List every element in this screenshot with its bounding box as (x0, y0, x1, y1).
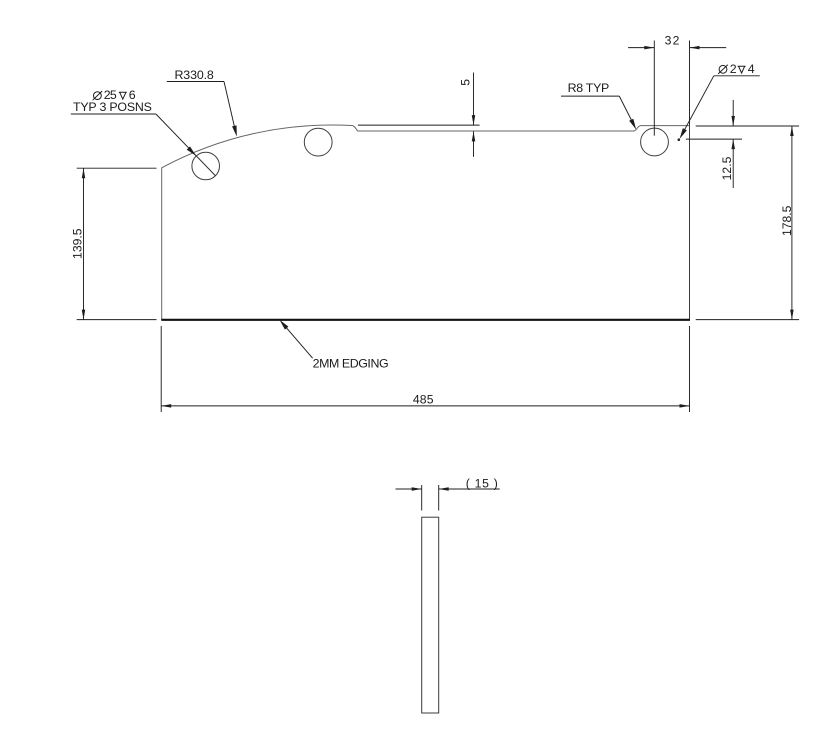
dimension (15): dimension lines (396, 488, 422, 490)
svg-text:178.5: 178.5 (780, 205, 794, 236)
svg-text:R8 TYP: R8 TYP (568, 81, 610, 95)
label dia 25 depth 6: diameter symbol (94, 92, 102, 100)
small hole (dia 2) (678, 138, 681, 141)
svg-text:32: 32 (665, 34, 680, 48)
dimension (15): arrowheads (412, 487, 422, 491)
label dia 2 depth 4: diameter symbol (719, 65, 727, 73)
part outline: main view profile (arc R330.8, recess, notch, edges) (162, 125, 690, 320)
svg-text:12.5: 12.5 (720, 156, 734, 180)
hole 2 (dia 25) (304, 128, 332, 156)
label 2MM EDGING: arrowhead (280, 320, 289, 330)
dimension 5: extension line (358, 124, 480, 126)
part bottom edge (2mm edging, thick) (161, 319, 690, 321)
dimension 5: arrowheads (472, 115, 476, 125)
label R8 TYP: arrowhead (629, 119, 636, 130)
label R8 TYP: underline and leader (561, 95, 619, 97)
svg-text:485: 485 (413, 393, 434, 407)
svg-text:( 15 ): ( 15 ) (466, 477, 498, 491)
dimension 32: dimension lines (628, 47, 654, 49)
label dia 2 depth 4: arrowhead (680, 128, 687, 139)
label TYP 3 POSNS: arrowhead (187, 146, 196, 156)
svg-text:139.5: 139.5 (70, 228, 84, 259)
dimension 178.5: extension lines (696, 125, 799, 127)
dimension 12.5: lower extension line (686, 138, 742, 140)
svg-text:2MM EDGING: 2MM EDGING (313, 356, 389, 370)
dimension 485: arrowheads (161, 404, 171, 408)
dimension 139.5: arrowheads (82, 168, 86, 178)
label R330.8: underline and leader (167, 81, 224, 83)
dimension 178.5: arrowheads (790, 126, 794, 136)
label dia 2 depth 4: depth symbol (738, 66, 746, 73)
dimension 485: extension lines (160, 326, 162, 412)
dimension 5: dimension lines (473, 73, 475, 126)
label dia 2 depth 4: underline and leader (714, 75, 760, 77)
dimension 32: extension lines (653, 41, 655, 136)
part right edge (689, 126, 691, 320)
dimension 485: dimension line (161, 405, 689, 407)
svg-text:R330.8: R330.8 (175, 68, 214, 82)
svg-text:4: 4 (748, 62, 755, 76)
label TYP 3 POSNS: underline and leader through hole 1 (71, 113, 156, 115)
hole 3 (dia 25) (641, 128, 669, 156)
dimension (15): extension lines (421, 485, 423, 511)
svg-text:5: 5 (459, 79, 473, 86)
dimension 32: arrowheads (644, 46, 654, 50)
side view rectangle (15 thick board) (422, 517, 439, 713)
dimension 139.5: extension lines (77, 167, 157, 169)
svg-text:TYP 3 POSNS: TYP 3 POSNS (73, 100, 152, 114)
label R330.8: arrowhead (232, 125, 237, 136)
label 2MM EDGING: leader (286, 327, 313, 358)
dimension 12.5: dimension lines (732, 100, 734, 126)
dimension 139.5: dimension line (83, 168, 85, 319)
dimension 178.5: dimension line (791, 126, 793, 320)
label dia 25 depth 6: depth symbol (119, 92, 127, 99)
svg-text:2: 2 (730, 62, 737, 76)
dimension 12.5: arrowheads (731, 116, 735, 126)
hole 1 (dia 25) (192, 152, 220, 180)
